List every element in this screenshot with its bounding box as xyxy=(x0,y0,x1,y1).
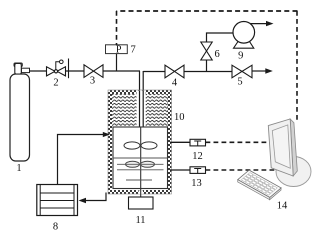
wire: junction up to pressure gauge 7 xyxy=(116,54,118,72)
reactor bath tube channel xyxy=(137,91,146,128)
svg-text:2: 2 xyxy=(53,78,58,89)
svg-text:12: 12 xyxy=(192,151,203,162)
wire: valve 2 to valve 3 xyxy=(66,70,85,72)
sensor box 12 xyxy=(190,139,206,146)
valve 4 xyxy=(165,65,184,78)
liquid short line xyxy=(126,179,152,181)
valve 6 (vertical) xyxy=(201,42,212,60)
liquid line xyxy=(117,169,164,171)
liquid surface line xyxy=(113,157,168,159)
wire: valve 3 to reactor inlet corner xyxy=(103,70,140,72)
valve 2 actuator link and circle xyxy=(56,62,60,70)
valve 5 xyxy=(232,65,252,78)
gas cylinder neck cap xyxy=(14,63,22,67)
svg-text:14: 14 xyxy=(277,201,288,212)
stirrer shaft xyxy=(140,127,142,203)
wire: outlet pipe from reactor up xyxy=(142,71,144,127)
impeller lower xyxy=(126,161,140,167)
reactor water bath (wavy) xyxy=(112,94,168,127)
keyboard front edge left xyxy=(238,180,270,200)
thermostat box 8 xyxy=(37,185,78,216)
impeller upper xyxy=(124,142,140,149)
keyboard keys xyxy=(241,173,277,196)
svg-text:P: P xyxy=(116,45,122,56)
computer 14 monitor side panel xyxy=(290,119,297,176)
valve 2 (pressure regulator) body xyxy=(47,67,66,76)
wire: reactor to sensor 13 xyxy=(170,169,190,171)
svg-text:1: 1 xyxy=(16,163,21,174)
keyboard body xyxy=(238,170,281,197)
svg-text:4: 4 xyxy=(172,78,178,89)
dashed signal: box 7 up xyxy=(116,11,118,45)
computer 14 base ellipse xyxy=(276,157,311,187)
svg-text:5: 5 xyxy=(237,77,242,88)
gas cylinder outlet fitting xyxy=(22,68,30,72)
sensor box 13 xyxy=(190,167,206,174)
computer 14 monitor bezel xyxy=(268,119,293,176)
svg-text:10: 10 xyxy=(174,112,185,123)
wire: outlet pipe to valve 4 xyxy=(143,71,165,73)
svg-text:9: 9 xyxy=(238,51,243,62)
valve 2 stem bar xyxy=(68,59,70,79)
wire: cylinder to valve 2 xyxy=(30,70,47,72)
dashed signal: right vertical down to computer xyxy=(296,11,298,120)
gas cylinder neck xyxy=(15,64,21,75)
wire: valve 4 to valve 5 xyxy=(184,71,232,73)
gas cylinder 1 body xyxy=(10,74,30,161)
pressure gauge box 7 xyxy=(106,45,128,54)
svg-text:13: 13 xyxy=(191,178,202,189)
svg-text:3: 3 xyxy=(90,75,95,86)
shaft gap in bottom wall xyxy=(139,190,143,194)
keyboard front edge right xyxy=(270,188,281,200)
wire: inlet pipe down into reactor xyxy=(139,71,141,127)
svg-text:11: 11 xyxy=(135,215,145,226)
wire: junction up to valve 6 xyxy=(206,60,208,72)
svg-text:6: 6 xyxy=(215,49,220,60)
svg-text:8: 8 xyxy=(53,222,58,233)
dashed signal: top horizontal xyxy=(117,10,298,12)
computer 14 screen xyxy=(272,125,290,168)
wire: heater supply from box 8 to reactor with arrow xyxy=(58,135,104,185)
pump 9 base xyxy=(234,42,254,49)
dashed signal: 13 to computer xyxy=(206,169,277,171)
wire: valve 6 up and over to pump 9 xyxy=(207,33,234,42)
liquid line through impellers xyxy=(117,163,164,165)
dashed signal: 12 to computer xyxy=(206,141,270,143)
wire: valve 5 outlet with arrow xyxy=(252,70,266,72)
svg-text:7: 7 xyxy=(131,44,136,55)
inner vessel xyxy=(113,127,168,189)
valve 3 xyxy=(84,65,103,78)
reactor 10 hatched jacket xyxy=(108,90,172,194)
wire: pump outlet with arrow xyxy=(250,23,267,25)
pump 9 circle xyxy=(233,22,255,44)
stirrer motor box 11 xyxy=(129,197,154,209)
wire: reactor to sensor 12 xyxy=(170,141,190,143)
wire: reactor drain to box 8 with arrow xyxy=(86,193,106,201)
